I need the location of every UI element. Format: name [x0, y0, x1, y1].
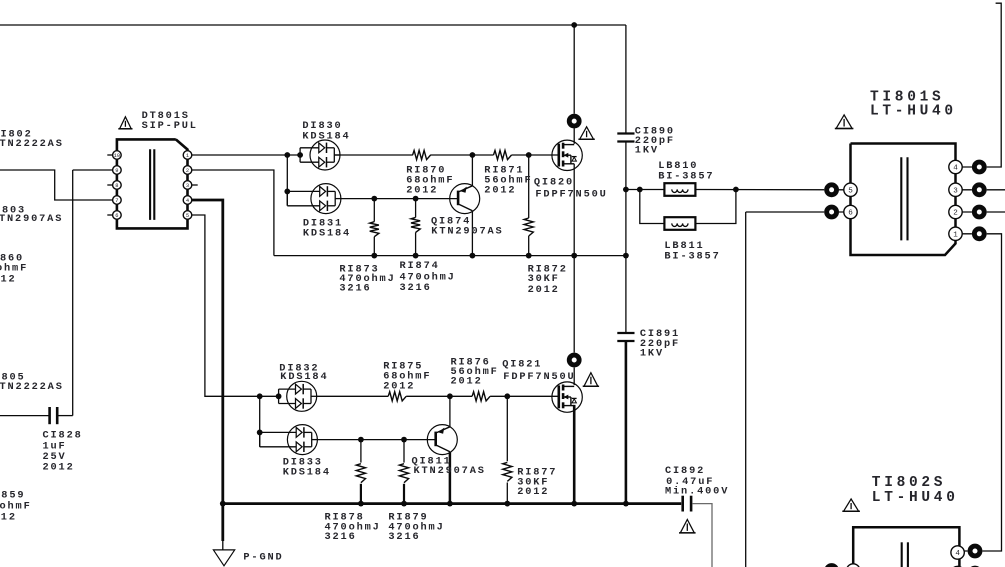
- svg-text:5: 5: [848, 188, 853, 196]
- wire LB810 row to rings of TI801S pin5: [626, 189, 665, 191]
- wire DT801S pin4 thick to P-GND: [192, 200, 223, 504]
- warning triangle TI801S: [836, 115, 852, 129]
- DT801S pin 4: [183, 196, 192, 205]
- svg-text:KDS184: KDS184: [303, 228, 351, 240]
- wire RI879 leads: [403, 440, 405, 463]
- wire RI875 to RI876 with QI811 branch: [406, 395, 472, 397]
- warning triangle QI820: [580, 127, 594, 139]
- wire DI831 anode branch vertical: [286, 155, 288, 205]
- wire RI874 leads: [415, 199, 417, 218]
- wire row2: DI832 out to RI875: [317, 395, 388, 397]
- TI802S pin 5 (partial): [847, 564, 860, 567]
- svg-text:12: 12: [1, 274, 17, 286]
- wire DT801S pin1 to DI830 row (y=155): [192, 154, 300, 156]
- svg-text:TI802S: TI802S: [872, 475, 946, 491]
- TI801S pin 3: [949, 183, 962, 196]
- wire RI877 leads: [506, 396, 508, 461]
- wire DT801S pin10 stub: [107, 154, 113, 156]
- DT801S pin 5: [183, 211, 192, 220]
- inductor LB810 BI-3857: [664, 183, 695, 196]
- DT801S pin 6: [113, 211, 122, 220]
- junction LB branch right: [733, 187, 739, 193]
- svg-text:3216: 3216: [339, 283, 371, 295]
- svg-text:KDS184: KDS184: [280, 371, 328, 383]
- resistor RI878: [356, 464, 365, 483]
- junction top rail / QI820 drain: [571, 22, 577, 28]
- svg-text:LT-HU40: LT-HU40: [872, 490, 959, 506]
- warning triangle TI802S: [844, 499, 859, 511]
- TI801S pin 6: [844, 205, 857, 218]
- wire RI873 leads: [373, 199, 375, 222]
- junction RI873 top: [371, 196, 377, 202]
- svg-text:6: 6: [115, 213, 118, 219]
- resistor RI879: [399, 464, 408, 483]
- svg-text:5: 5: [186, 213, 189, 219]
- warning triangle DT801S: [120, 117, 132, 129]
- svg-text:3: 3: [953, 188, 958, 196]
- wire QI820 drain from top rail: [573, 25, 575, 144]
- svg-text:LT-HU40: LT-HU40: [870, 104, 957, 120]
- junction LB branch left: [637, 187, 643, 193]
- svg-text:1KV: 1KV: [640, 348, 664, 360]
- wire QI874 emitter vertical: [471, 155, 473, 186]
- wire DT801S pin8 stub: [107, 184, 113, 186]
- junction DI833 branch: [257, 393, 263, 399]
- svg-text:QI820: QI820: [534, 177, 574, 189]
- svg-text:BI-3857: BI-3857: [664, 250, 720, 262]
- wire TI801S ring3 to right edge: [962, 189, 1005, 191]
- TI801S ring 2: [972, 205, 987, 220]
- wire CI828 right lead: [58, 415, 73, 417]
- wire QI811 base row from DI833 out: [317, 439, 435, 441]
- capacitor CI890: [617, 132, 634, 134]
- DT801S pin 1: [183, 151, 192, 160]
- junctions on rail1: [371, 253, 377, 259]
- svg-text:2: 2: [186, 168, 189, 174]
- svg-text:12: 12: [1, 512, 17, 524]
- junction RI877/QI821 gate on row2: [504, 393, 510, 399]
- wire QI811 emitter vertical: [449, 396, 451, 427]
- junction LB node left: [623, 187, 629, 193]
- wire TI801S pin6 to descending line x=745.7: [746, 211, 851, 213]
- svg-text:3216: 3216: [400, 282, 432, 294]
- wire QI874 collector vertical to rail1: [471, 211, 473, 255]
- wire QI811 collector to rail2 (thick): [449, 452, 452, 503]
- wire RI870 to RI871 with QI874 emitter branch: [430, 154, 493, 156]
- svg-text:RI874: RI874: [400, 260, 440, 272]
- svg-text:2012: 2012: [484, 184, 516, 196]
- wire CI890 column: cap to LB node to rail1 to CI891: [625, 142, 627, 333]
- wire CI892 output to bottom edge: [693, 504, 712, 567]
- DT801S pin 7: [113, 196, 122, 205]
- resistor RI871: [494, 150, 512, 159]
- TI801S pin 5: [844, 183, 857, 196]
- capacitor CI891: [617, 332, 634, 334]
- resistor RI877: [503, 462, 512, 481]
- junction RI879 top: [401, 437, 407, 443]
- DT801S pin 2: [183, 166, 192, 175]
- svg-text:QI821: QI821: [502, 359, 542, 371]
- junction DI832 bracket: [276, 393, 282, 399]
- svg-text:KDS184: KDS184: [283, 466, 331, 478]
- transistor QI874 KTN2907AS: [450, 184, 480, 214]
- warning triangle CI892: [680, 520, 694, 533]
- svg-text:P-GND: P-GND: [243, 551, 283, 563]
- capacitor CI892: [681, 496, 684, 512]
- wire CI891 to rail2 (thick): [625, 341, 628, 503]
- wire RI871 to QI820 gate: [512, 154, 559, 156]
- svg-text:BI-3857: BI-3857: [658, 171, 714, 183]
- resistor RI875: [388, 392, 406, 401]
- resistor RI874: [411, 217, 420, 232]
- svg-text:KTN2907AS: KTN2907AS: [431, 226, 503, 238]
- junction RI878 top: [358, 437, 364, 443]
- svg-text:FDPF7N50U: FDPF7N50U: [503, 371, 575, 383]
- svg-text:2012: 2012: [406, 184, 438, 196]
- wire TI801S ring2 to right edge: [962, 211, 1005, 213]
- wire CI828 column vertical: [72, 170, 74, 416]
- wire DI830 output to RI870: [334, 154, 413, 156]
- TI801S pin 4: [949, 160, 962, 173]
- svg-text:2012: 2012: [43, 462, 75, 474]
- junction DI831 branch on row1: [284, 152, 290, 158]
- MOSFET QI820 symbol: [552, 140, 582, 170]
- TI802S ring 3 (partial): [968, 566, 983, 567]
- wire DT801S pin2 down to rail1: [192, 170, 274, 256]
- junction DI830 bracket on row1: [297, 152, 303, 158]
- TI802S ring 5 (partial): [824, 563, 839, 567]
- svg-text:TN2222AS: TN2222AS: [0, 381, 64, 393]
- wire CI890 column upper segment: [625, 25, 627, 133]
- wire DT801S pin6 stub: [107, 214, 113, 216]
- resistor RI872: [524, 218, 533, 236]
- svg-text:SIP-PUL: SIP-PUL: [142, 120, 198, 132]
- svg-text:8: 8: [115, 183, 118, 189]
- transformer DT801S core: [149, 149, 151, 220]
- svg-text:2012: 2012: [528, 284, 560, 296]
- resistor RI870: [413, 150, 431, 159]
- TI801S pin 2: [949, 205, 962, 218]
- transformer TI801S LT-HU40 body: [851, 144, 956, 256]
- dual diode DI830 KDS184: [310, 140, 340, 170]
- svg-text:2012: 2012: [451, 376, 483, 388]
- dual diode DI833 KDS184: [287, 425, 317, 455]
- svg-text:1KV: 1KV: [635, 145, 659, 157]
- wire QI821 source to rail2 (thick): [573, 405, 576, 504]
- junction QI874 emitter on row1: [470, 152, 476, 158]
- wire rail2 P-GND rail (thick): [223, 502, 681, 505]
- wire TI801S ring4 to top stub: [962, 3, 1001, 167]
- DT801S pin 9: [113, 166, 122, 175]
- wire DT801S pin5 to DI832 row: [192, 215, 279, 396]
- wire QI802 drive line into DT801S pin9: [0, 170, 113, 200]
- MOSFET QI821 symbol: [552, 382, 582, 412]
- DT801S pin 8: [113, 181, 122, 190]
- resistor RI873: [370, 222, 379, 237]
- inductor LB811 BI-3857: [664, 217, 695, 230]
- DT801S pin 10: [113, 151, 122, 160]
- transistor QI811 KTN2907AS: [427, 425, 457, 455]
- svg-text:7: 7: [115, 198, 118, 204]
- junctions on rail2: [220, 501, 226, 507]
- svg-text:TN2222AS: TN2222AS: [0, 138, 64, 150]
- junction RI874 top: [413, 196, 419, 202]
- DT801S pin 3: [183, 181, 192, 190]
- wire vertical x=745.7 down to bottom edge: [745, 212, 747, 567]
- svg-text:3216: 3216: [388, 531, 420, 543]
- junction QI811 emitter on row2: [447, 393, 453, 399]
- TI801S ring 5: [824, 182, 839, 197]
- dual diode DI831 KDS184: [311, 184, 341, 214]
- svg-text:2: 2: [953, 210, 958, 218]
- TI802S ring 4: [968, 544, 983, 559]
- TI801S ring 4: [972, 160, 987, 175]
- svg-text:FDPF7N50U: FDPF7N50U: [535, 189, 607, 201]
- svg-text:10: 10: [114, 153, 120, 159]
- resistor RI876: [472, 392, 490, 401]
- wire DI833 anode branch vertical: [259, 396, 261, 447]
- transformer TI802S core: [901, 542, 903, 567]
- junction RI872/QI820 gate on row1: [526, 152, 532, 158]
- TI801S ring 1: [972, 226, 987, 241]
- svg-text:6: 6: [848, 210, 853, 218]
- svg-text:1: 1: [953, 232, 958, 240]
- junction DI833 top anode: [257, 430, 263, 436]
- wire QI820 source to rail1: [573, 164, 575, 256]
- svg-text:4: 4: [953, 165, 958, 173]
- wire LB811 parallel branch: [640, 190, 665, 224]
- junction DI831 top anode: [284, 189, 290, 195]
- svg-text:3216: 3216: [325, 531, 357, 543]
- wire QI874 base row from DI831 output: [341, 198, 458, 200]
- svg-text:TN2907AS: TN2907AS: [0, 213, 63, 225]
- ground symbol P-GND: [213, 550, 234, 566]
- transformer TI802S LT-HU40 body: [853, 527, 959, 567]
- svg-text:1: 1: [186, 153, 189, 159]
- svg-text:Min.400V: Min.400V: [665, 485, 729, 497]
- wire RI876 to QI821 gate: [490, 395, 560, 397]
- wire RI872 leads: [528, 155, 530, 218]
- TI801S pin 1: [949, 227, 962, 240]
- TI802S pin 3 (partial): [951, 566, 964, 567]
- transformer DT801S SIP-PUL body: [117, 139, 188, 228]
- transformer TI801S core: [900, 157, 902, 240]
- TI801S ring 6: [824, 205, 839, 220]
- wire DT801S pin3 stub: [192, 184, 198, 186]
- svg-text:KTN2907AS: KTN2907AS: [414, 465, 486, 477]
- MOSFET QI820 FDPF7N50U terminal ring: [567, 114, 582, 129]
- wire from left edge to DT801S pin9 via CI828 column: [73, 169, 114, 171]
- wire CI828 left lead to edge: [0, 415, 49, 417]
- MOSFET QI821 FDPF7N50U terminal ring: [567, 353, 582, 368]
- wire top rail net D+ (y=25): [0, 24, 626, 26]
- wire TI801S ring1 down to TI802S ring4: [962, 234, 1001, 551]
- svg-text:9: 9: [115, 168, 118, 174]
- svg-text:4: 4: [955, 550, 960, 558]
- warning triangle QI821: [584, 373, 598, 387]
- wire QI821 drain below ring: [573, 367, 575, 385]
- TI802S pin 4: [951, 546, 964, 559]
- capacitor CI828: [48, 407, 51, 424]
- wire QI820 source / QI821 drain link: [573, 256, 575, 353]
- wire rail1 mid rail (y=255.6): [274, 255, 626, 257]
- TI801S ring 3: [972, 182, 987, 197]
- wire RI878 leads: [360, 440, 362, 463]
- svg-text:3: 3: [186, 183, 189, 189]
- svg-text:2012: 2012: [383, 381, 415, 393]
- svg-text:KDS184: KDS184: [302, 130, 350, 142]
- dual diode DI832 KDS184: [287, 381, 317, 411]
- svg-text:4: 4: [186, 198, 189, 204]
- svg-text:2012: 2012: [517, 486, 549, 498]
